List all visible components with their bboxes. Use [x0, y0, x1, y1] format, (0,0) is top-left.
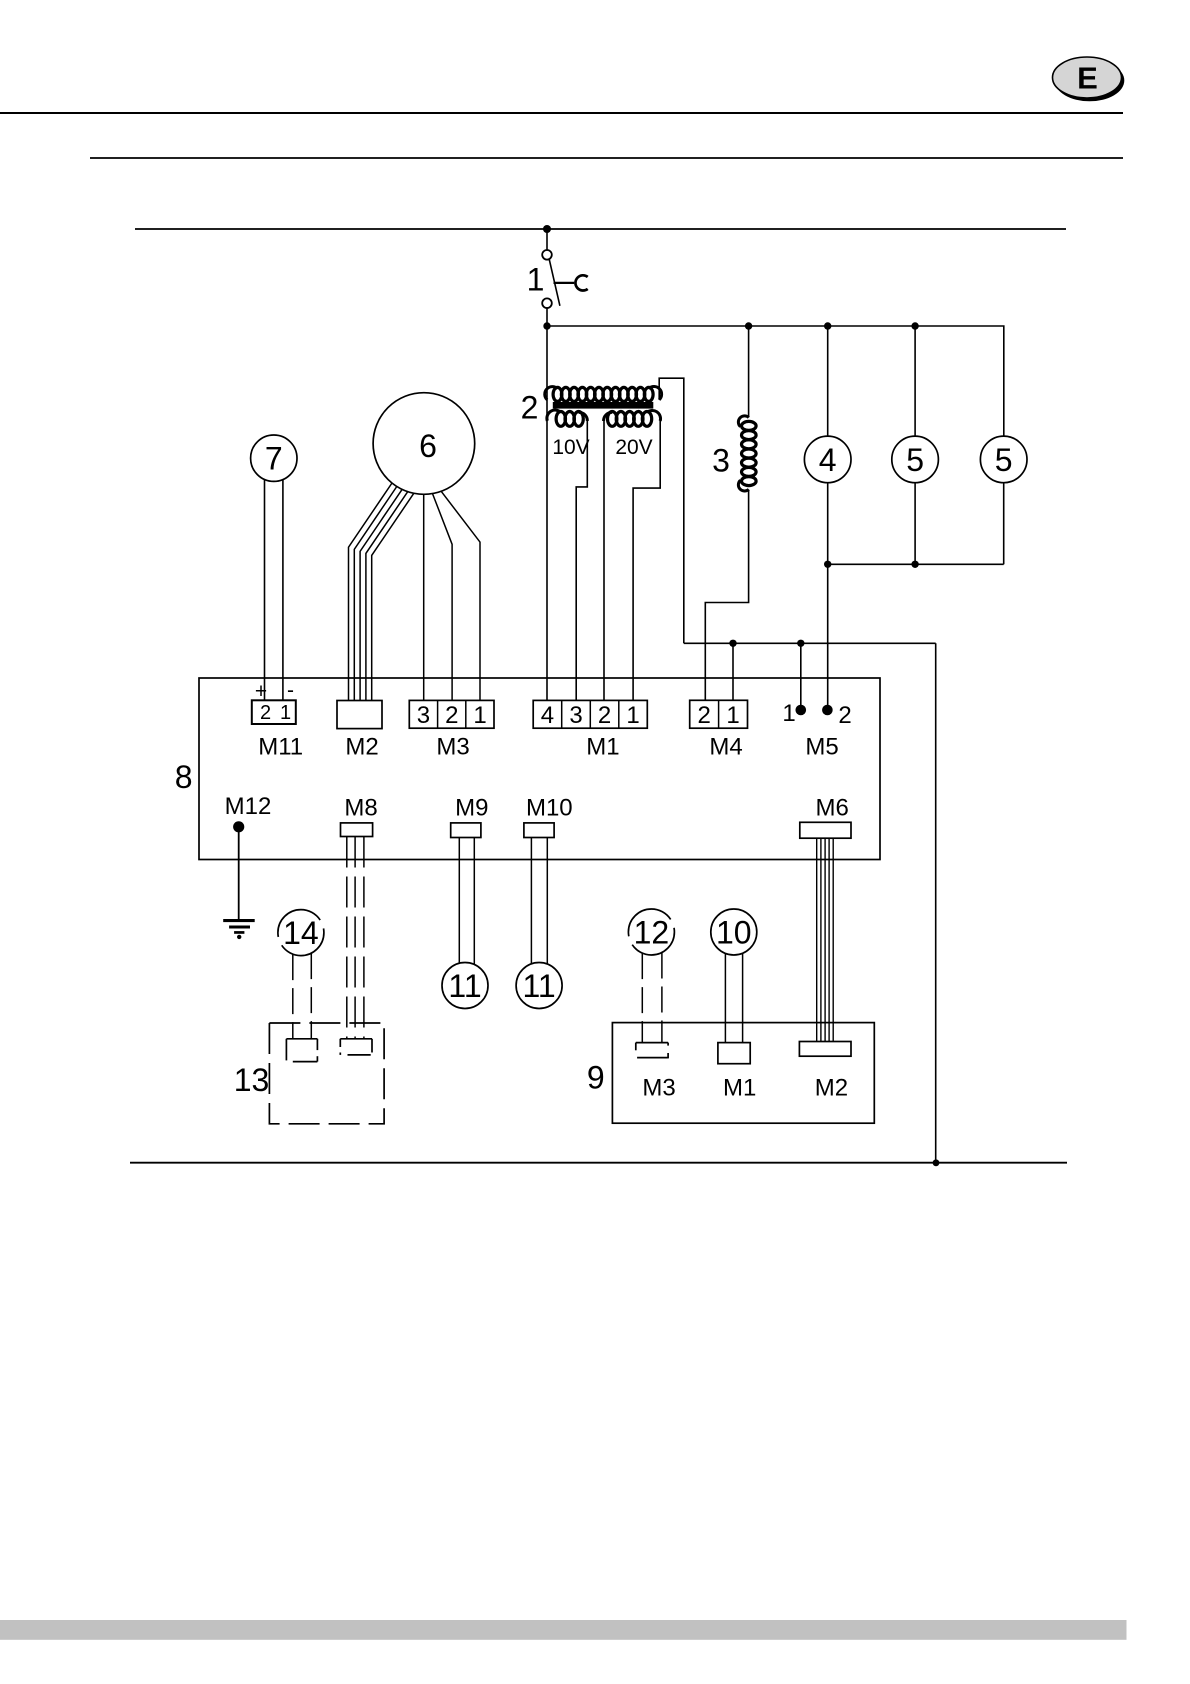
wire: circle 5 to bottom link — [914, 483, 916, 565]
wire: lamps bottom link — [828, 563, 1004, 565]
ground symbol — [223, 919, 255, 939]
svg-text:M12: M12 — [225, 793, 272, 820]
wire: 20V right tap to M1 pin 1 — [633, 420, 660, 701]
header rule second — [90, 157, 1123, 159]
svg-text:M4: M4 — [709, 734, 742, 761]
box 9 connector M2 — [799, 1042, 851, 1057]
node: switch bottom junction — [543, 322, 550, 329]
terminal M8 box — [341, 823, 373, 837]
box 13 (optional module, dashed) — [269, 1023, 384, 1124]
wire: left rail through transformer to M1 pin 4 — [546, 326, 548, 701]
wires: M9 to circle 11 — [458, 838, 460, 964]
svg-text:5: 5 — [995, 442, 1013, 478]
wire: circle 7 - lead to M11 — [282, 480, 284, 701]
svg-text:10V: 10V — [552, 436, 589, 459]
svg-text:7: 7 — [265, 441, 283, 477]
circle 5 (lamp left) — [892, 436, 939, 483]
wire: M12 to ground — [238, 830, 240, 920]
switch 1 upper contact — [542, 250, 552, 260]
svg-text:-: - — [287, 679, 294, 702]
svg-text:9: 9 — [587, 1059, 605, 1095]
box 9 connector M1 — [718, 1043, 750, 1064]
terminal M2 box (board) — [337, 701, 382, 729]
circle 4 (motor) — [804, 436, 851, 483]
svg-text:M11: M11 — [258, 734, 303, 761]
wire: switch to second bus — [546, 308, 548, 326]
svg-text:6: 6 — [419, 428, 437, 464]
svg-text:2: 2 — [598, 702, 611, 729]
wires: circle 14 to connector (dashed) — [292, 954, 294, 1039]
wire: 10V right tap to M1 pin 3 — [576, 420, 587, 701]
wires: circle 6 bundle to M2 (5 lines) — [349, 483, 393, 701]
transformer core — [553, 402, 654, 409]
svg-text:3: 3 — [712, 443, 730, 479]
svg-text:2: 2 — [445, 702, 458, 729]
box 9 (power module) — [612, 1023, 874, 1124]
wire: right drop to bottom rail — [935, 643, 937, 1163]
svg-text:1: 1 — [726, 702, 739, 729]
wire: to M5 pin 1 — [800, 643, 802, 710]
wire: circle 6 to M3 pin 3 — [423, 494, 425, 700]
wire: bus2 to circle 5 — [914, 326, 916, 436]
svg-text:1: 1 — [782, 700, 795, 727]
box 13 right connector — [340, 1039, 372, 1055]
wire: circle 6 to M3 pin 2 — [433, 494, 453, 701]
terminal M5 pin 2 — [822, 705, 833, 716]
node: bus2 at circle 4 — [824, 322, 831, 329]
terminal M3 box (board) — [409, 700, 494, 728]
node: bottom rail junction — [933, 1159, 940, 1166]
terminal M5 pin 1 — [796, 705, 807, 716]
circle 5 (lamp right) — [980, 436, 1027, 483]
svg-text:M2: M2 — [345, 734, 378, 761]
transformer 2 primary winding — [545, 387, 662, 402]
svg-text:M10: M10 — [526, 795, 573, 822]
wire: circle 5b to bottom link — [1003, 483, 1005, 565]
node: y643 at M4 pin1 — [729, 640, 736, 647]
wire: bus2 down to coil 3 — [748, 326, 750, 417]
wire: second bus — [547, 326, 1004, 436]
circle 14 (optional sensor) — [278, 910, 324, 956]
wire: bottom rail — [130, 1162, 1067, 1164]
transformer secondary 20V winding — [604, 410, 661, 426]
wire: junction to switch contact — [546, 229, 548, 250]
svg-text:M9: M9 — [455, 795, 488, 822]
svg-text:M3: M3 — [642, 1075, 675, 1102]
svg-text:3: 3 — [417, 702, 430, 729]
svg-text:E: E — [1077, 61, 1098, 96]
box 13 left connector — [286, 1039, 317, 1062]
svg-text:4: 4 — [819, 442, 837, 478]
box 9 connector M3 (dashed) — [636, 1043, 668, 1059]
svg-text:2: 2 — [698, 702, 711, 729]
wires: M6 to box 9 M2 (5 lines) — [816, 838, 818, 1041]
svg-text:3: 3 — [569, 702, 582, 729]
node: link at circle4 column — [824, 561, 831, 568]
wire: primary right terminal over to right drop — [659, 378, 684, 643]
header rule top — [0, 112, 1123, 114]
svg-text:M1: M1 — [586, 734, 619, 761]
terminal M11 box — [252, 700, 296, 724]
terminal M12 (earth stud) — [233, 821, 244, 832]
wires: M8 to connector (3 dashed) — [346, 837, 348, 1039]
transformer secondary 10V winding — [547, 410, 587, 426]
switch 1 lever — [549, 260, 560, 306]
terminal M4 box — [690, 700, 748, 728]
svg-text:14: 14 — [283, 915, 319, 951]
svg-text:2: 2 — [521, 390, 539, 426]
wire: 20V left tap to M1 pin 2 — [603, 420, 605, 701]
circle 11 (right) — [516, 963, 562, 1009]
node: switch top junction — [543, 225, 551, 233]
circle 11 (left) — [442, 963, 488, 1009]
circle 7 (sensor) — [251, 435, 297, 481]
wire: horizontal link y=643 — [684, 642, 936, 644]
node: bus2 at coil 3 — [745, 322, 752, 329]
svg-text:1: 1 — [626, 702, 639, 729]
wire: circle 6 to M3 pin 1 — [441, 491, 480, 700]
switch 1 actuator C-arc — [575, 275, 587, 290]
svg-text:5: 5 — [906, 442, 924, 478]
svg-text:4: 4 — [541, 702, 554, 729]
wire: to M4 pin 1 — [732, 643, 734, 700]
svg-text:1: 1 — [473, 702, 486, 729]
svg-text:10: 10 — [716, 915, 752, 951]
svg-text:2: 2 — [260, 702, 271, 724]
svg-text:M1: M1 — [723, 1075, 756, 1102]
svg-text:11: 11 — [522, 968, 555, 1004]
svg-text:M3: M3 — [436, 734, 469, 761]
svg-text:M2: M2 — [815, 1075, 848, 1102]
wires: circle 12 to box 9 M3 (dashed) — [641, 953, 643, 1043]
wires: M10 to circle 11b — [530, 838, 532, 964]
wire: circle 7 + lead to M11 — [264, 480, 266, 701]
svg-text:M8: M8 — [344, 795, 377, 822]
node: link at circle5 column — [911, 561, 918, 568]
wire: circle 4 down to M5 pin 2 — [827, 483, 829, 710]
terminal M6 box — [800, 822, 851, 838]
wires: circle 10 to box 9 M1 — [724, 953, 726, 1042]
E badge (language marker) — [1053, 57, 1125, 101]
svg-text:11: 11 — [448, 968, 481, 1004]
node: y643 at M5 pin1 — [797, 640, 804, 647]
switch 1 lower contact — [542, 298, 552, 308]
circle 10 — [711, 909, 757, 955]
svg-text:M5: M5 — [805, 734, 838, 761]
terminal M1 box (board) — [533, 700, 647, 728]
svg-text:20V: 20V — [615, 436, 652, 459]
svg-text:1: 1 — [527, 262, 545, 298]
svg-text:13: 13 — [234, 1062, 270, 1098]
wire: coil 3 to M4 pin 2 — [705, 490, 748, 701]
node: bus2 at circle 5 — [911, 322, 918, 329]
terminal M9 box — [451, 823, 481, 838]
svg-text:8: 8 — [175, 759, 193, 795]
switch 1 actuator T-bar — [554, 282, 575, 284]
box 8 control board — [199, 678, 880, 860]
footer gray bar — [0, 1620, 1127, 1640]
wire: bus2 to circle 4 — [827, 326, 829, 436]
svg-text:M6: M6 — [816, 795, 849, 822]
svg-text:2: 2 — [838, 702, 851, 729]
circle 12 (optional, dashed) — [628, 909, 674, 955]
coil 3 (inductor) — [738, 416, 756, 491]
svg-text:1: 1 — [280, 702, 291, 724]
circle 6 (motor unit) — [373, 393, 475, 495]
svg-text:12: 12 — [634, 915, 670, 951]
terminal M10 box — [524, 823, 554, 838]
wire: mains top bus L — [135, 228, 1066, 230]
